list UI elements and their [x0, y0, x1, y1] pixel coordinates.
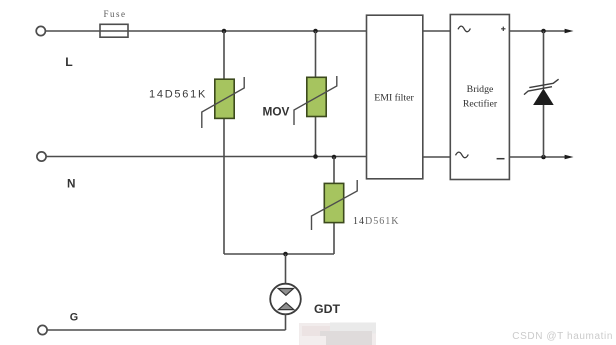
- bridge rectifier U2: [450, 15, 509, 180]
- terminal N: [37, 152, 46, 161]
- wire DC+ output: [509, 30, 565, 32]
- node junction dot L/RV2: [313, 29, 318, 34]
- watermark mosaic: [299, 323, 376, 345]
- fuse F1: [100, 24, 128, 37]
- node junction dot L/RV1: [222, 29, 227, 34]
- wire N line: [46, 156, 366, 158]
- bridge pin ~ top: [458, 26, 470, 32]
- wire TVS column: [543, 31, 545, 157]
- bridge pin +: [501, 27, 505, 31]
- wire ground bus: [224, 253, 334, 255]
- varistor RV2 MOV: [294, 76, 337, 125]
- wire EMI to bridge bottom: [423, 156, 451, 158]
- arrow DC-: [565, 155, 574, 159]
- terminal L: [36, 26, 45, 35]
- svg-text:Bridge: Bridge: [467, 84, 494, 95]
- arrow DC+: [565, 29, 574, 33]
- bridge pin -: [497, 158, 505, 160]
- svg-text:Rectifier: Rectifier: [463, 99, 498, 110]
- varistor RV3 14D561K: [312, 180, 358, 230]
- svg-text:G: G: [70, 311, 78, 323]
- wire G line: [47, 329, 285, 331]
- terminal G: [38, 325, 47, 334]
- svg-text:GDT: GDT: [314, 302, 340, 316]
- wire GDT bottom lead: [285, 314, 287, 330]
- svg-text:L: L: [65, 55, 73, 69]
- wire RV2 column: [315, 31, 317, 157]
- node junction dot DC+/D1: [541, 29, 546, 34]
- wire EMI to bridge top: [423, 30, 451, 32]
- EMI filter U1: [367, 15, 423, 179]
- wire RV1 column: [223, 31, 225, 254]
- svg-text:EMI filter: EMI filter: [374, 93, 414, 104]
- bridge pin ~ bottom: [456, 152, 469, 158]
- svg-text:Fuse: Fuse: [103, 9, 126, 19]
- node junction dot DC-/D1: [541, 155, 546, 160]
- wire RV3 column: [333, 157, 335, 254]
- svg-text:14D561K: 14D561K: [149, 89, 207, 101]
- gas discharge tube GDT: [270, 284, 301, 315]
- node junction dot N/RV3: [332, 155, 337, 160]
- varistor RV1 14D561K: [202, 77, 244, 128]
- wire GDT top lead: [285, 254, 287, 284]
- wire DC- output: [509, 156, 565, 158]
- svg-text:N: N: [67, 178, 75, 191]
- svg-text:MOV: MOV: [263, 105, 290, 119]
- node junction dot GDT: [283, 252, 288, 257]
- node junction dot N/RV2: [313, 154, 318, 159]
- wire L line: [46, 30, 367, 32]
- TVS diode D1: [524, 79, 559, 104]
- svg-text:CSDN @T haumatin: CSDN @T haumatin: [512, 331, 613, 342]
- svg-text:14D561K: 14D561K: [353, 216, 399, 227]
